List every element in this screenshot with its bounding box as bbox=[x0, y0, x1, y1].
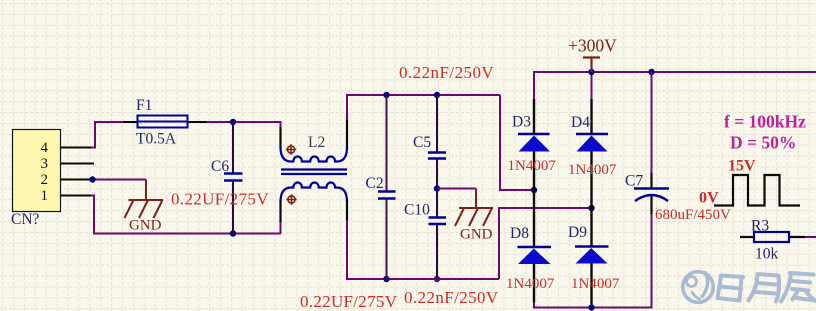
svg-text:D4: D4 bbox=[571, 114, 590, 131]
lead bottom-right bbox=[346, 200, 348, 221]
wire pin2 to GND bbox=[93, 179, 147, 181]
svg-text:4: 4 bbox=[41, 140, 49, 156]
junction AC2 at D4/D9 bbox=[588, 205, 594, 211]
watermark character RI bbox=[718, 276, 744, 301]
svg-text:680uF/450V: 680uF/450V bbox=[655, 207, 731, 223]
pin 1 lead bbox=[61, 195, 91, 197]
ground GND (left) bbox=[125, 180, 164, 234]
svg-text:C7: C7 bbox=[625, 173, 643, 190]
wire rail down to D3 bbox=[533, 71, 535, 100]
junction C2 bottom bbox=[383, 276, 389, 282]
watermark character CHEN bbox=[781, 273, 816, 302]
svg-text:D8: D8 bbox=[510, 225, 529, 242]
svg-text:1N4007: 1N4007 bbox=[568, 162, 617, 178]
polarity dot top bbox=[286, 144, 296, 154]
svg-text:0.22UF/275V: 0.22UF/275V bbox=[300, 292, 398, 311]
pin 2 lead bbox=[61, 179, 91, 181]
resistor R3 bbox=[740, 218, 805, 263]
junction D9 bottom bbox=[588, 304, 594, 310]
svg-text:D3: D3 bbox=[512, 114, 531, 131]
svg-text:10k: 10k bbox=[755, 246, 779, 263]
svg-text:C10: C10 bbox=[404, 202, 430, 219]
svg-text:T0.5A: T0.5A bbox=[136, 131, 177, 148]
svg-text:3: 3 bbox=[41, 156, 49, 172]
core lines bbox=[281, 170, 347, 175]
wire rail down to D4 bbox=[591, 72, 593, 100]
fuse F1 bbox=[123, 97, 207, 148]
diode D3 bbox=[508, 99, 557, 247]
watermark character YUE bbox=[749, 274, 780, 302]
wire AC2 into bridge bbox=[499, 208, 592, 279]
connector CN? bbox=[11, 130, 61, 229]
watermark logo circle bbox=[683, 272, 714, 303]
junction at C6 top bbox=[230, 119, 236, 125]
svg-text:1N4007: 1N4007 bbox=[571, 276, 620, 292]
wire C5-C10 midpoint bbox=[436, 159, 438, 218]
ground GND (mid) bbox=[455, 189, 493, 243]
diode D9 bbox=[568, 224, 620, 308]
svg-text:R3: R3 bbox=[751, 218, 769, 235]
svg-text:1N4007: 1N4007 bbox=[506, 276, 555, 292]
waveform square wave bbox=[714, 175, 800, 206]
lead top-left bbox=[279, 127, 281, 149]
polarity dot bottom bbox=[286, 194, 296, 204]
capacitor C7 bbox=[625, 72, 731, 223]
svg-text:L2: L2 bbox=[308, 134, 325, 151]
svg-text:D = 50%: D = 50% bbox=[730, 133, 796, 153]
wire R3 right bbox=[805, 236, 816, 238]
lead top-right bbox=[346, 114, 348, 149]
svg-text:0.22nF/250V: 0.22nF/250V bbox=[404, 288, 499, 307]
junction AC1 at D3/D8 bbox=[531, 187, 537, 193]
svg-text:15V: 15V bbox=[728, 158, 756, 175]
junction at pin 2 bbox=[89, 176, 95, 182]
winding bottom bbox=[281, 182, 348, 202]
wire choke bottom-right down to mid bottom rail bbox=[347, 220, 499, 279]
wire AC1 into bridge bbox=[500, 95, 534, 190]
svg-text:C2: C2 bbox=[366, 175, 384, 192]
wire pin4 to fuse F1 bbox=[91, 122, 123, 148]
svg-text:0V: 0V bbox=[699, 190, 719, 207]
svg-text:f = 100kHz: f = 100kHz bbox=[724, 112, 806, 132]
capacitor C10 bbox=[404, 202, 446, 280]
svg-text:0.22nF/250V: 0.22nF/250V bbox=[399, 63, 494, 82]
wire +300V rail bbox=[534, 71, 816, 73]
svg-text:C5: C5 bbox=[413, 134, 431, 151]
pin 4 lead bbox=[61, 147, 91, 149]
capacitor C6 bbox=[171, 122, 269, 234]
inductor L2 common-mode choke bbox=[281, 114, 348, 223]
svg-text:CN?: CN? bbox=[11, 211, 40, 228]
junction C5/C10 mid bbox=[434, 185, 440, 191]
capacitor C5 bbox=[413, 95, 446, 159]
junction C5 top bbox=[434, 92, 440, 98]
lead bottom-left bbox=[279, 200, 281, 223]
svg-text:D9: D9 bbox=[568, 224, 587, 241]
junction at C6 bottom bbox=[230, 230, 236, 236]
svg-text:1: 1 bbox=[41, 188, 49, 204]
wire pin1 to bottom rail bbox=[91, 196, 281, 234]
capacitor C2 bbox=[366, 95, 396, 279]
svg-text:1N4007: 1N4007 bbox=[508, 158, 557, 174]
wire top-left corner into choke bbox=[280, 121, 282, 129]
wire choke top-right up to mid top rail bbox=[347, 95, 500, 120]
svg-text:C6: C6 bbox=[211, 158, 229, 175]
svg-text:2: 2 bbox=[41, 172, 49, 188]
power +300V bbox=[568, 36, 617, 73]
svg-text:GND: GND bbox=[460, 227, 493, 243]
diode D8 bbox=[506, 225, 555, 303]
svg-text:+300V: +300V bbox=[568, 36, 617, 56]
wire choke bottom-left to rail bbox=[280, 222, 282, 234]
junction C2 top bbox=[383, 92, 389, 98]
svg-text:0.22UF/275V: 0.22UF/275V bbox=[171, 190, 269, 209]
wire fuse to choke (top rail) bbox=[207, 121, 281, 123]
pin 3 lead bbox=[61, 163, 94, 165]
svg-text:GND: GND bbox=[129, 218, 162, 234]
junction +300V/D4 bbox=[588, 69, 594, 75]
wire bridge bottom rail bbox=[534, 213, 652, 308]
wire mid to GND2 bbox=[437, 188, 476, 190]
winding top bbox=[281, 147, 348, 162]
diode D4 bbox=[568, 99, 617, 247]
svg-text:F1: F1 bbox=[136, 97, 152, 114]
junction +300V/C7 bbox=[648, 69, 654, 75]
junction C10 bottom bbox=[434, 276, 440, 282]
